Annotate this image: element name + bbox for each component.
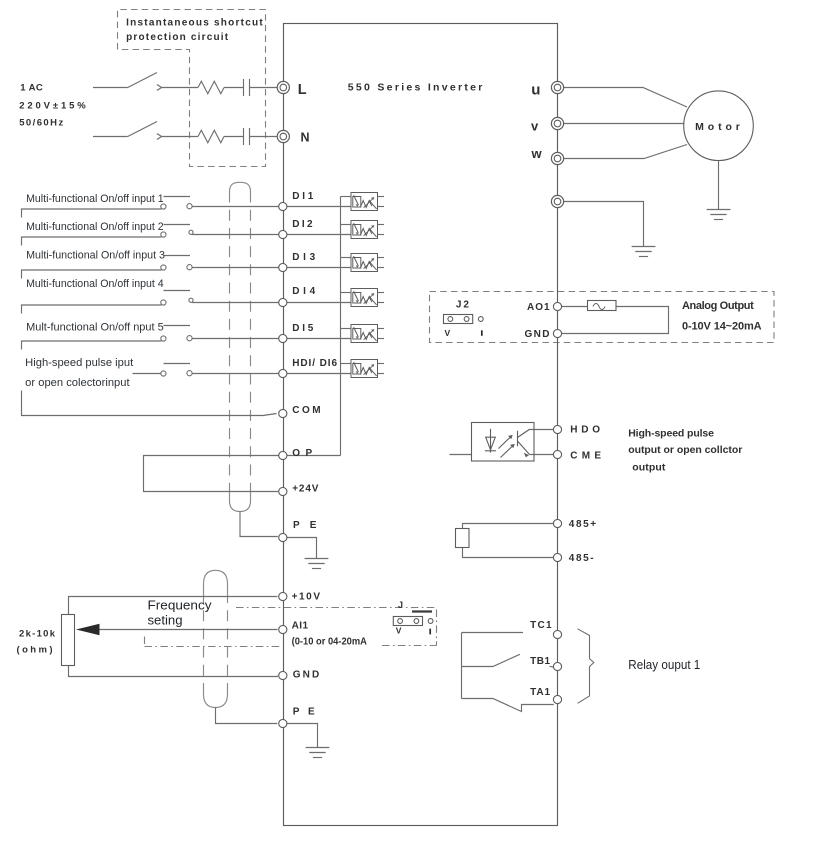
svg-text:485+: 485+ xyxy=(569,519,596,530)
svg-text:or open colectorinput: or open colectorinput xyxy=(25,377,129,389)
svg-text:N: N xyxy=(301,130,310,144)
svg-text:DI4: DI4 xyxy=(292,286,315,297)
svg-text:High-speed pulse: High-speed pulse xyxy=(628,428,714,440)
svg-text:protection circuit: protection circuit xyxy=(126,32,229,43)
svg-text:TA1: TA1 xyxy=(530,687,550,698)
svg-text:Multi-functional On/off input: Multi-functional On/off input 4 xyxy=(26,278,164,290)
svg-text:Mult-functional On/off nput 5: Mult-functional On/off nput 5 xyxy=(26,322,164,334)
svg-text:DI1: DI1 xyxy=(292,191,314,202)
svg-text:Multi-functional On/off input: Multi-functional On/off input 3 xyxy=(26,250,165,262)
svg-text:HDO: HDO xyxy=(570,424,600,435)
svg-text:CME: CME xyxy=(570,451,601,462)
svg-text:output: output xyxy=(632,461,666,473)
svg-text:+24V: +24V xyxy=(292,483,319,494)
svg-text:J2: J2 xyxy=(456,300,469,311)
svg-text:Relay ouput 1: Relay ouput 1 xyxy=(628,658,700,672)
svg-text:TB1: TB1 xyxy=(530,656,550,667)
svg-text:TC1: TC1 xyxy=(530,620,552,631)
svg-text:HDI/ DI6: HDI/ DI6 xyxy=(292,358,337,369)
svg-text:GND: GND xyxy=(293,670,320,681)
svg-text:L: L xyxy=(298,82,307,98)
svg-text:DI3: DI3 xyxy=(292,252,315,263)
svg-text:seting: seting xyxy=(148,614,183,628)
svg-text:High-speed pulse iput: High-speed pulse iput xyxy=(25,357,133,369)
svg-text:COM: COM xyxy=(292,405,320,416)
svg-text:DI2: DI2 xyxy=(292,219,313,230)
svg-text:Multi-functional On/off input: Multi-functional On/off input 2 xyxy=(26,221,164,233)
svg-text:V: V xyxy=(445,328,451,338)
svg-text:J: J xyxy=(398,600,403,610)
svg-text:GND: GND xyxy=(525,329,550,340)
svg-text:Frequency: Frequency xyxy=(148,599,213,613)
svg-text:+10V: +10V xyxy=(292,591,321,602)
svg-text:AO1: AO1 xyxy=(527,302,550,313)
svg-text:output or open collctor: output or open collctor xyxy=(628,444,742,456)
svg-text:0-10V 14~20mA: 0-10V 14~20mA xyxy=(682,321,762,333)
svg-text:Multi-functional On/off input: Multi-functional On/off input 1 xyxy=(26,193,164,205)
svg-text:AI1: AI1 xyxy=(292,621,309,632)
svg-text:w: w xyxy=(531,146,543,161)
svg-text:DI5: DI5 xyxy=(292,323,314,334)
svg-text:v: v xyxy=(531,119,539,134)
svg-text:485-: 485- xyxy=(569,553,594,564)
svg-text:V: V xyxy=(396,625,402,635)
svg-text:u: u xyxy=(531,82,540,99)
svg-text:(0-10 or 04-20mA: (0-10 or 04-20mA xyxy=(292,637,367,648)
svg-text:Analog Output: Analog Output xyxy=(682,300,754,312)
svg-text:1 AC: 1 AC xyxy=(20,82,43,93)
svg-text:50/60Hz: 50/60Hz xyxy=(19,118,63,129)
